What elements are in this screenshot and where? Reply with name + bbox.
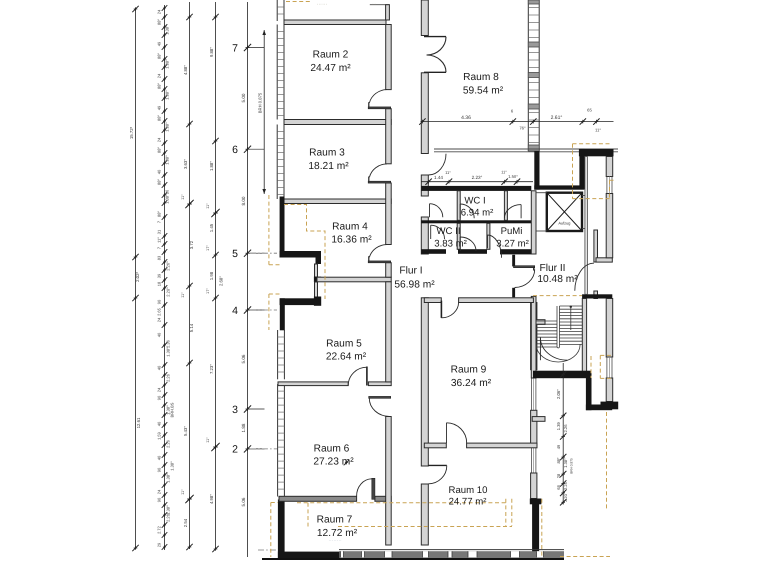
svg-text:2.26: 2.26 [166,513,171,522]
svg-text:1.38°: 1.38° [166,473,171,483]
svg-text:49: 49 [556,444,561,449]
svg-text:5.00: 5.00 [241,93,246,102]
partition east of elevator [585,157,588,295]
wall Raum5/Raum6 with door gap [278,382,391,386]
svg-text:2.06°: 2.06° [556,389,561,399]
svg-text:2.68°: 2.68° [219,276,224,286]
svg-text:3: 3 [232,404,238,416]
svg-text:Flur II: Flur II [539,263,565,274]
Flur II entry door [512,255,535,297]
svg-text:88°: 88° [556,457,561,463]
WC block bottom walls [421,249,534,254]
svg-text:12.61: 12.61 [136,417,141,428]
svg-text:2.36: 2.36 [166,339,171,348]
svg-text:6.94 m²: 6.94 m² [461,208,494,219]
svg-text:2.26°: 2.26° [166,261,171,271]
new black walls north-east [534,149,613,190]
svg-text:WC II: WC II [437,226,461,237]
svg-text:Flur I: Flur I [399,266,422,277]
svg-text:26: 26 [165,189,170,194]
svg-text:88°: 88° [157,179,162,185]
svg-text:6: 6 [232,144,238,156]
Flur II east wall [594,230,612,299]
horizontal dimension line WC [421,169,533,185]
svg-text:1.39: 1.39 [556,422,561,431]
door Raum 10 [428,465,447,483]
door Raum 9/10 [447,423,467,443]
svg-text:4.88°: 4.88° [183,65,188,75]
svg-text:…: … [371,1,377,7]
svg-text:17°: 17° [206,245,210,251]
svg-text:10.48 m²: 10.48 m² [537,274,578,285]
svg-text:90: 90 [157,299,162,304]
door Raum 7 [357,478,375,499]
dimension chain 1 (overall) [129,6,141,551]
svg-text:……: …… [317,1,328,7]
svg-text:11°: 11° [206,437,210,443]
grid axis chain with numbers [219,2,265,557]
svg-text:Raum 8: Raum 8 [463,72,499,83]
svg-text:4.98°: 4.98° [209,494,214,504]
svg-text:2.61°: 2.61° [551,115,563,121]
dimension chain 3 [181,2,194,550]
svg-text:7: 7 [232,42,238,54]
svg-text:1.38°: 1.38° [166,347,171,357]
svg-text:24: 24 [157,387,162,392]
svg-text:2.20: 2.20 [563,493,568,502]
svg-text:3.63°: 3.63° [183,159,188,169]
svg-text:3.72: 3.72 [189,240,194,249]
staircase treads [536,306,582,362]
svg-text:1.38°: 1.38° [165,194,170,204]
stairwell walls [531,296,612,410]
svg-text:40: 40 [157,455,162,460]
svg-text:2.26: 2.26 [166,439,171,448]
Raum 9 north wall [424,298,533,303]
door Raum 6 [369,396,391,416]
svg-text:40: 40 [157,365,162,370]
svg-text:Raum 6: Raum 6 [314,444,350,455]
svg-text:40: 40 [157,169,162,174]
door Raum 3 [368,164,391,183]
svg-text:1.38°: 1.38° [166,505,171,515]
svg-text:5: 5 [232,248,238,260]
svg-text:76°: 76° [519,126,526,131]
svg-text:5.14: 5.14 [189,323,194,332]
svg-text:90: 90 [157,497,162,502]
svg-text:17°: 17° [206,288,210,294]
svg-text:88°: 88° [157,19,162,25]
faint top edge remnants [317,1,377,466]
svg-text:1.59: 1.59 [157,431,162,440]
svg-text:24.47 m²: 24.47 m² [310,63,351,74]
svg-text:5.43°: 5.43° [183,426,188,436]
svg-text:BRH.BS: BRH.BS [170,402,175,417]
svg-text:40: 40 [157,421,162,426]
new black stepped wall (Raum 4 west) [280,197,322,283]
svg-text:24: 24 [157,317,162,322]
wall Raum2/Raum3 [284,120,391,125]
svg-text:31: 31 [157,229,162,234]
svg-text:3.83 m²: 3.83 m² [434,239,467,250]
Flur I east wall [421,0,428,545]
svg-text:65: 65 [587,108,592,113]
svg-text:1.38°: 1.38° [563,458,568,468]
dimension chain 2 (window piers) [157,5,175,550]
WC block middle wall [421,220,531,223]
svg-text:90: 90 [157,395,162,400]
BRH dimension with arrows [257,30,266,194]
svg-text:2.54: 2.54 [183,518,188,527]
PuMi door [488,235,502,258]
svg-text:2.20°: 2.20° [166,287,171,297]
svg-text:2.25: 2.25 [563,481,568,490]
svg-text:11°: 11° [595,128,601,133]
svg-text:83: 83 [157,255,162,260]
vertical dimension chain east [556,363,574,506]
svg-text:59.54 m²: 59.54 m² [463,86,504,97]
door Raum 8 south [428,154,446,175]
dimension chain 4 [206,2,220,552]
WC II inner door [460,237,476,251]
svg-text:28: 28 [556,473,561,478]
door Raum 2 [368,90,391,109]
svg-text:88°: 88° [157,53,162,59]
svg-text:24: 24 [157,489,162,494]
svg-text:11°: 11° [181,489,185,495]
svg-text:88°: 88° [157,83,162,89]
wall above Raum 2 [284,5,389,25]
svg-text:11°: 11° [181,292,185,298]
svg-text:Raum 2: Raum 2 [313,50,349,61]
wall below Flur II [582,294,612,298]
left exterior wall with windows [277,0,284,497]
svg-text:11°: 11° [206,203,210,209]
svg-text:2.65: 2.65 [157,307,162,316]
double door Raum 8 [424,37,446,73]
svg-text:11°: 11° [501,169,507,174]
WC partitions [457,191,507,250]
svg-text:15.72²: 15.72² [129,126,134,139]
svg-text:WC I: WC I [464,196,485,207]
wall Raum6/Raum7 with door gap [279,496,391,501]
svg-text:49: 49 [157,105,162,110]
elevator shaft west wall [531,191,536,254]
svg-text:8.00: 8.00 [241,196,246,205]
svg-text:16.36 m²: 16.36 m² [331,235,372,246]
svg-text:27.23 m²: 27.23 m² [313,457,354,468]
svg-text:Raum 4: Raum 4 [332,222,368,233]
svg-text:Raum 3: Raum 3 [309,148,345,159]
svg-text:PuMi: PuMi [501,226,523,237]
WC vestibule door [430,204,443,218]
door Raum 5 [348,367,367,386]
svg-text:24: 24 [157,9,162,14]
door Raum 9 [441,301,458,318]
svg-text:1.88: 1.88 [241,423,246,432]
svg-text:4.36: 4.36 [461,115,471,121]
east exterior wall [601,157,619,410]
horizontal dimension line Raum 8 [419,108,613,133]
svg-text:1.38°: 1.38° [165,25,170,35]
svg-text:11°: 11° [157,237,162,243]
room labels [308,50,578,540]
svg-text:2: 2 [232,444,238,456]
svg-text:18: 18 [157,281,162,286]
axis dash-dot stubs [250,253,277,550]
svg-text:39: 39 [157,273,162,278]
svg-text:1.50°: 1.50° [508,174,518,179]
svg-text:4: 4 [232,305,238,317]
svg-text:1.38°: 1.38° [165,59,170,69]
bottom exterior wall with windows [262,500,564,561]
svg-text:11°: 11° [445,170,451,175]
stair door arc [540,338,567,361]
door right of WC I [504,205,521,219]
Flur II exit door [575,263,594,291]
svg-text:40: 40 [157,332,162,337]
svg-text:Aufzug: Aufzug [558,221,570,226]
svg-text:5.06: 5.06 [241,497,246,506]
svg-text:2.26: 2.26 [563,424,568,433]
svg-text:Raum 5: Raum 5 [326,339,362,350]
Flur I west wall [386,25,392,546]
svg-text:18.21 m²: 18.21 m² [308,161,349,172]
svg-text:88°: 88° [157,147,162,153]
svg-text:68: 68 [556,485,561,490]
svg-text:Raum 7: Raum 7 [317,515,353,526]
svg-text:88°: 88° [157,211,162,217]
svg-text:12.72 m²: 12.72 m² [317,528,358,539]
WC I door [460,204,474,218]
svg-text:24.77 m²: 24.77 m² [449,497,488,508]
svg-text:2.23°: 2.23° [472,175,483,180]
svg-text:22.64 m²: 22.64 m² [326,352,367,363]
svg-text:BRH 0.875: BRH 0.875 [570,458,574,474]
svg-text:29: 29 [157,542,162,547]
wall Raum4/Flur (zigzag east part) [317,277,391,282]
svg-text:1.38°: 1.38° [170,461,175,471]
svg-text:36.24 m²: 36.24 m² [451,378,492,389]
svg-text:2.72: 2.72 [157,525,162,534]
svg-text:1.88°: 1.88° [209,161,214,171]
svg-text:2.02²: 2.02² [135,272,140,282]
right exterior wall (Raum 8) [528,0,539,151]
WC II door [431,225,445,239]
svg-text:1.98: 1.98 [209,271,214,280]
svg-text:1.38°: 1.38° [165,155,170,165]
wall Raum9/Raum10 [424,443,537,448]
svg-text:1.38°: 1.38° [165,90,170,100]
svg-text:1.45: 1.45 [209,223,214,232]
WC block top wall [421,186,531,191]
new black stepped wall (Raum 5 north-west) [280,282,322,330]
door Raum 4 [368,245,391,263]
svg-text:88°: 88° [157,115,162,121]
svg-text:9.88°: 9.88° [209,47,214,57]
Raum 8 low partition / balcony edge [434,149,618,152]
svg-text:90: 90 [157,467,162,472]
svg-text:Raum 9: Raum 9 [451,365,487,376]
svg-text:5.06: 5.06 [241,354,246,363]
svg-text:2.26: 2.26 [166,373,171,382]
svg-text:Raum 10: Raum 10 [449,485,488,496]
svg-text:24: 24 [157,73,162,78]
elevator Aufzug [536,193,586,231]
svg-text:3.27 m²: 3.27 m² [496,239,529,250]
svg-text:56.98 m²: 56.98 m² [394,280,435,291]
svg-text:49: 49 [157,41,162,46]
wall Raum3/Raum4 [281,199,391,204]
right exterior wall (Raum 9 / Raum 10) [530,303,545,556]
orange dashed overlay [269,2,614,558]
svg-text:11°: 11° [181,194,185,200]
svg-text:BRH 0.875: BRH 0.875 [257,92,262,113]
svg-text:7.23°: 7.23° [209,364,214,374]
svg-text:1.44: 1.44 [434,175,443,180]
svg-text:1.38°: 1.38° [165,122,170,132]
svg-text:24: 24 [157,137,162,142]
